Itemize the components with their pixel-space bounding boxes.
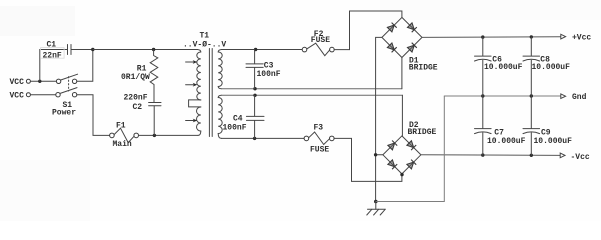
diode D2 bottom-right <box>407 160 416 169</box>
transformer T1 labels <box>183 31 226 49</box>
wire center tap upper (to D1 bottom) <box>222 88 402 90</box>
svg-text:BRIDGE: BRIDGE <box>408 128 437 137</box>
svg-text:F1: F1 <box>116 121 126 130</box>
node junction C6 top <box>481 35 484 38</box>
svg-text:0R1/QW: 0R1/QW <box>121 73 150 82</box>
wire D2 top to center tap lower <box>401 95 403 136</box>
wire Gnd bus <box>444 95 560 97</box>
bridge rectifier D2 outline <box>383 121 437 174</box>
transformer T1 primary winding <box>189 50 201 136</box>
svg-text:BRIDGE: BRIDGE <box>409 63 438 72</box>
capacitor C7 10.000uF <box>475 96 526 155</box>
svg-text:Gnd: Gnd <box>572 93 587 102</box>
svg-text:10.000uF: 10.000uF <box>487 137 526 146</box>
svg-text:100nF: 100nF <box>223 124 247 133</box>
transformer secondary bottom winding <box>218 95 222 138</box>
capacitor C8 10.000uF <box>523 37 570 96</box>
node +Vcc output terminal <box>561 34 592 43</box>
wire center tap lower (to D2 top) <box>222 94 403 96</box>
transformer primary tap arrows <box>186 60 198 64</box>
node junction C7 bottom <box>481 153 484 156</box>
svg-text:C4: C4 <box>233 115 243 124</box>
diode D2 bottom-left <box>388 160 397 169</box>
node junction C4 top <box>253 94 256 97</box>
svg-text:VCC: VCC <box>10 78 25 87</box>
node junction C6 bottom <box>481 94 484 97</box>
ground symbol <box>367 202 385 216</box>
switch S1 Power (DPST) <box>52 74 78 117</box>
svg-text:100nF: 100nF <box>257 70 281 79</box>
capacitor C6 10.000uF <box>475 37 523 96</box>
capacitor C3 100nF <box>246 50 281 89</box>
node junction ground rail / bottom wire <box>374 200 378 204</box>
primary tap jog <box>189 100 201 107</box>
wire secondary top to F2 <box>222 49 303 51</box>
diode D1 top-left <box>387 23 396 32</box>
wire D2 left stub <box>376 154 383 156</box>
capacitor C2 220nF <box>124 94 162 136</box>
fuse F2 <box>302 30 334 56</box>
wire top rail to transformer primary <box>93 49 198 51</box>
node junction top rail / switch output <box>91 48 94 51</box>
node junction C3 top <box>254 48 257 51</box>
svg-text:C2: C2 <box>133 103 143 112</box>
node junction C4 bottom <box>253 137 256 140</box>
resistor R1 0R1/QW <box>121 50 158 103</box>
wire D1 right to +Vcc bus <box>422 36 561 39</box>
svg-text:10.000uF: 10.000uF <box>534 137 573 146</box>
transformer secondary top winding <box>218 50 222 89</box>
svg-text:10.000uF: 10.000uF <box>532 63 571 72</box>
capacitor C4 100nF <box>223 95 265 138</box>
wire D2 right to -Vcc bus <box>421 154 560 157</box>
node junction C9 top <box>530 94 533 97</box>
node junction C3 bottom <box>253 87 256 90</box>
node junction C1 left on VCC1 wire <box>38 80 41 83</box>
wire VCC1 to switch pole 1 <box>31 80 57 82</box>
svg-text:FUSE: FUSE <box>311 36 330 45</box>
svg-text:..V-Ø-..V: ..V-Ø-..V <box>183 40 226 49</box>
node junction C8 top <box>530 35 533 38</box>
wire F3 to D2 bottom <box>334 138 402 181</box>
wire D1 bottom to center tap upper <box>401 58 403 89</box>
diode D1 bottom-right <box>408 43 417 52</box>
node junction C2 bottom <box>153 134 156 137</box>
svg-text:FUSE: FUSE <box>310 146 329 155</box>
svg-text:C1: C1 <box>47 40 57 49</box>
wire D1 left to ground rail (vertical) <box>376 37 382 201</box>
wire F2 to D1 top <box>334 11 402 50</box>
wire switch pole1 output up to top rail <box>77 50 93 82</box>
wire F1 to primary bottom <box>139 134 199 136</box>
svg-text:Power: Power <box>52 109 76 118</box>
svg-text:T1: T1 <box>200 31 210 40</box>
wire secondary bottom to F3 <box>222 137 305 139</box>
diode D2 top-right <box>407 141 416 150</box>
node junction D2 left / ground rail <box>374 153 377 156</box>
node Gnd output terminal <box>561 93 587 102</box>
node VCC terminal 1 <box>10 78 31 87</box>
node VCC terminal 2 <box>10 91 31 100</box>
wire switch pole2 output down to F1 <box>77 95 110 136</box>
node junction C9 bottom <box>530 154 533 157</box>
wire VCC2 to switch pole 2 <box>31 94 56 96</box>
svg-text:+Vcc: +Vcc <box>572 34 591 43</box>
node junction D2 bottom vertex <box>400 173 403 176</box>
capacitor C1 22nF across switch <box>40 40 93 81</box>
diode D1 bottom-left <box>387 43 396 52</box>
svg-text:Main: Main <box>113 140 132 149</box>
diode D2 top-left <box>388 141 397 150</box>
fuse F3 <box>304 124 334 155</box>
bridge rectifier D1 outline <box>382 17 438 72</box>
svg-text:VCC: VCC <box>10 91 25 100</box>
svg-text:22nF: 22nF <box>43 51 62 60</box>
wire bottom ground return <box>376 96 445 202</box>
node junction R1 top on rail <box>152 48 155 51</box>
transformer T1 core <box>209 49 212 137</box>
svg-text:220nF: 220nF <box>124 94 148 103</box>
capacitor C9 10.000uF <box>523 96 572 155</box>
fuse F1 Main <box>110 121 139 149</box>
node -Vcc output terminal <box>560 153 590 162</box>
svg-text:10.000uF: 10.000uF <box>484 63 523 72</box>
svg-text:-Vcc: -Vcc <box>571 153 590 162</box>
diode D1 top-right <box>408 23 417 32</box>
svg-text:F3: F3 <box>314 124 324 133</box>
